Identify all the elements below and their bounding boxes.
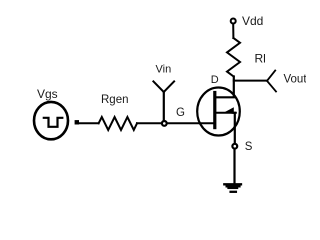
wire source to ground (233, 149, 235, 184)
ground bar 4 (231, 191, 236, 193)
svg-text:Vin: Vin (156, 63, 172, 75)
substrate arrow line (217, 112, 236, 114)
pin terminal of Vgs (75, 120, 79, 124)
wire node G to gate (168, 122, 215, 124)
ground bar 1 (224, 183, 241, 185)
svg-text:Vdd: Vdd (242, 14, 263, 28)
drain bend wire (216, 77, 234, 98)
resistor Rl (227, 38, 240, 76)
Vout probe lower arm (267, 81, 276, 92)
svg-text:Rl: Rl (255, 52, 266, 66)
Vin probe left arm (153, 81, 163, 92)
svg-text:Rgen: Rgen (101, 94, 129, 106)
resistor Rgen (99, 117, 137, 130)
substrate arrow head (224, 107, 234, 114)
source S terminal ring (232, 144, 237, 149)
svg-text:S: S (245, 141, 253, 153)
voltage source Vgs (pulse source body) (34, 102, 68, 139)
Vout probe upper arm (267, 71, 275, 81)
node G junction ring (162, 121, 167, 126)
ground bar 3 (228, 187, 237, 189)
wire Vdd to Rl (232, 24, 234, 38)
Vin probe stem (163, 92, 165, 121)
source lead (234, 113, 236, 144)
svg-text:D: D (211, 74, 219, 86)
transistor M1 body circle (197, 88, 240, 136)
wire pin to Rgen (79, 122, 99, 124)
svg-text:Vgs: Vgs (37, 87, 58, 101)
svg-text:G: G (176, 107, 185, 119)
wire Rgen to node G (137, 122, 161, 124)
pulse waveform symbol inside Vgs (44, 118, 63, 127)
svg-text:Vout: Vout (284, 73, 307, 85)
wire drain to Vout probe (234, 80, 267, 82)
Vin probe right arm (164, 81, 174, 92)
transistor gate/channel bar (213, 93, 216, 128)
ground bar 2 (227, 185, 240, 187)
Vdd terminal ring (231, 19, 236, 24)
